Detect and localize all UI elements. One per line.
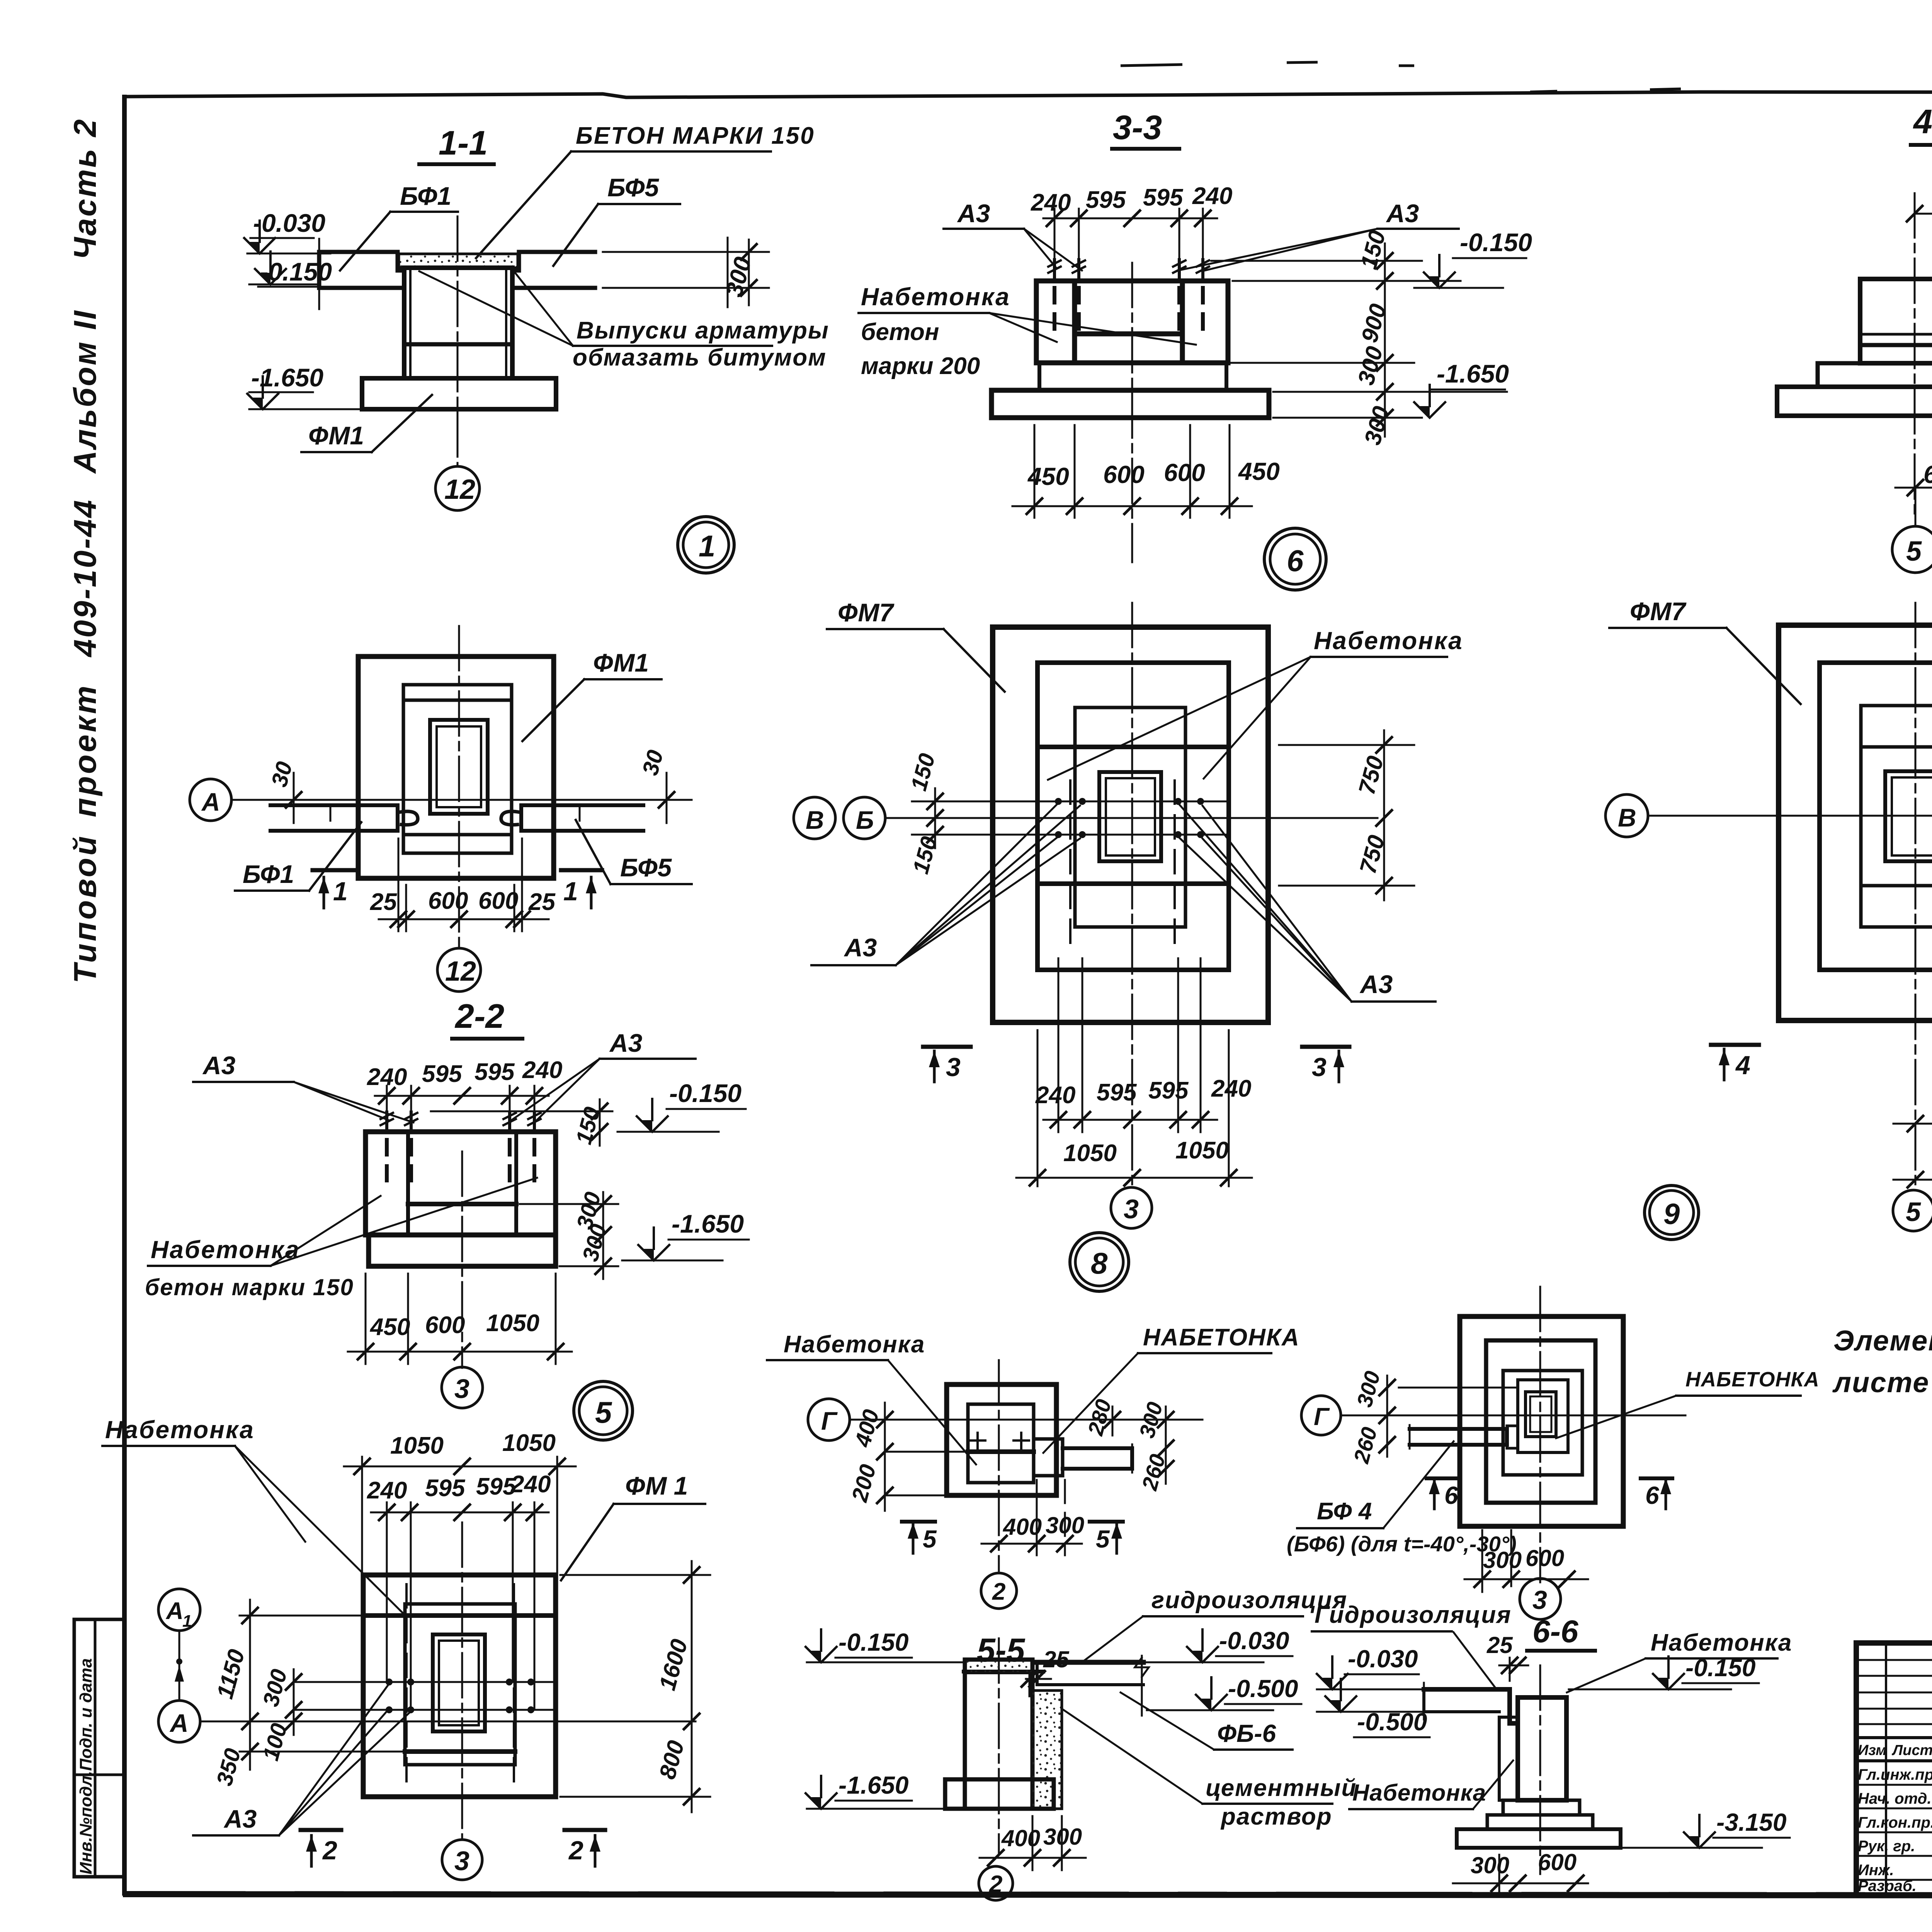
svg-text:-0.500: -0.500 <box>1228 1675 1298 1702</box>
svg-text:Типовой: Типовой <box>68 834 103 983</box>
svg-text:ФМ7: ФМ7 <box>838 598 895 627</box>
axis Г circle <box>808 1399 850 1440</box>
axis Г circle <box>1301 1396 1341 1435</box>
svg-text:А: А <box>201 787 220 816</box>
rebar stubs <box>1048 260 1061 280</box>
svg-text:1-1: 1-1 <box>439 124 488 162</box>
detail circle 6 <box>1264 528 1326 590</box>
svg-text:Выпуски арматуры: Выпуски арматуры <box>577 317 829 344</box>
upper pedestal with набетонка notch <box>1861 706 1932 747</box>
axis circle 2 <box>981 1573 1017 1609</box>
left dim 400 200 <box>885 1451 968 1453</box>
axis А circle <box>158 1701 200 1742</box>
svg-text:5: 5 <box>1096 1525 1110 1553</box>
axis В circle <box>794 797 835 839</box>
section mark 2 right <box>565 1828 605 1832</box>
svg-text:5: 5 <box>1906 536 1922 567</box>
centerline <box>461 1151 463 1368</box>
dim 150 right <box>599 1099 601 1146</box>
svg-text:6: 6 <box>1287 544 1304 578</box>
svg-text:Б: Б <box>856 806 874 834</box>
rebar dots <box>1055 798 1062 805</box>
svg-text:6: 6 <box>1645 1481 1659 1509</box>
concrete pad бетон марки 150 <box>399 254 518 268</box>
svg-text:595: 595 <box>1097 1079 1137 1106</box>
rebar dashed verticals <box>405 1584 408 1789</box>
svg-text:400: 400 <box>1001 1825 1040 1851</box>
svg-text:240: 240 <box>522 1057 562 1083</box>
rebar stubs <box>381 1112 393 1132</box>
middle step <box>405 1604 515 1765</box>
svg-text:Набетонка: Набетонка <box>105 1416 255 1444</box>
svg-text:-1.650: -1.650 <box>251 363 323 392</box>
axis А line <box>231 799 692 801</box>
centerline <box>461 1522 463 1839</box>
axis А1 circle <box>158 1589 200 1631</box>
svg-text:А3: А3 <box>1359 970 1393 998</box>
level -0.030 <box>244 221 275 253</box>
svg-text:1: 1 <box>182 1612 192 1631</box>
svg-text:600: 600 <box>428 888 468 914</box>
svg-text:240: 240 <box>510 1471 551 1498</box>
axis Б circle <box>844 797 885 839</box>
axis line <box>885 817 1378 819</box>
level -1.650 <box>247 376 278 409</box>
middle step <box>1820 663 1932 970</box>
svg-text:В: В <box>1618 803 1636 832</box>
svg-text:Рук. гр.: Рук. гр. <box>1858 1838 1915 1855</box>
footing <box>992 390 1269 418</box>
svg-text:1050: 1050 <box>390 1432 444 1459</box>
upper pedestal <box>1075 707 1185 747</box>
right dim chain 150 900 300 300 <box>1211 260 1422 262</box>
svg-text:450: 450 <box>1027 463 1069 490</box>
step 3 <box>1503 1371 1582 1475</box>
svg-text:5: 5 <box>595 1395 612 1429</box>
middle step <box>1037 663 1229 970</box>
svg-text:НАБЕТОНКА: НАБЕТОНКА <box>1685 1368 1820 1391</box>
outer outline <box>947 1384 1056 1495</box>
outer foundation outline <box>363 1575 556 1797</box>
svg-text:25: 25 <box>1043 1646 1070 1672</box>
svg-text:Гл.кон.пр.: Гл.кон.пр. <box>1858 1814 1932 1831</box>
svg-text:6-6: 6-6 <box>1532 1614 1579 1649</box>
detail circle 8 <box>1070 1233 1129 1291</box>
rebar offset lines 150 150 <box>912 801 1229 803</box>
svg-text:450: 450 <box>1238 457 1280 485</box>
wall with stipple top <box>965 1660 1032 1809</box>
anchor cross right <box>1020 1433 1022 1448</box>
БФ4 slab plan <box>1034 1439 1063 1476</box>
svg-text:Г: Г <box>821 1406 838 1435</box>
svg-text:марки 200: марки 200 <box>861 353 980 379</box>
section mark 6 right <box>1641 1476 1672 1480</box>
dim 300 right <box>318 239 320 309</box>
right dim 280 <box>1112 1406 1114 1435</box>
svg-text:409-10-44: 409-10-44 <box>68 498 103 658</box>
svg-text:1: 1 <box>333 877 348 906</box>
svg-text:25: 25 <box>528 889 556 915</box>
rebar dots <box>386 1679 393 1685</box>
svg-text:1050: 1050 <box>1063 1140 1117 1167</box>
svg-text:240: 240 <box>1031 189 1071 216</box>
floor slab БФ1 left <box>319 252 404 288</box>
step 2 <box>1486 1340 1595 1503</box>
svg-text:600: 600 <box>1538 1849 1577 1875</box>
frame top edge <box>124 92 1932 97</box>
svg-text:А: А <box>165 1598 184 1624</box>
cement pocket stippled <box>1032 1690 1062 1809</box>
title block outer border <box>1856 1643 1932 1895</box>
footing <box>369 1235 556 1266</box>
axis circle 3 <box>1520 1578 1561 1619</box>
svg-text:8: 8 <box>1091 1246 1108 1280</box>
svg-text:3: 3 <box>1124 1194 1139 1224</box>
svg-text:ФБ-6: ФБ-6 <box>1217 1719 1276 1747</box>
lower pedestal <box>1075 884 1185 927</box>
svg-text:600: 600 <box>478 888 518 914</box>
axis circle 5 bottom <box>1893 1190 1932 1231</box>
svg-text:595: 595 <box>1086 187 1126 213</box>
outer footing outline <box>993 627 1268 1022</box>
left dim 350 <box>240 1751 405 1753</box>
axis А1-А connector <box>179 1631 180 1699</box>
top fold dashes <box>1121 65 1182 66</box>
svg-text:Часть 2: Часть 2 <box>68 118 103 260</box>
svg-text:А3: А3 <box>202 1051 235 1080</box>
centerline <box>1914 193 1916 520</box>
svg-text:4: 4 <box>1735 1051 1750 1080</box>
outer foundation outline <box>358 656 554 878</box>
svg-text:1: 1 <box>699 529 715 563</box>
footing <box>1777 387 1932 416</box>
svg-text:Лист: Лист <box>1891 1742 1932 1759</box>
svg-text:Инв.№подл.: Инв.№подл. <box>77 1771 95 1874</box>
lower pedestal <box>1861 886 1932 927</box>
svg-text:12: 12 <box>445 956 476 987</box>
slab БФ5 plan right <box>521 805 643 831</box>
pedestal step <box>1039 363 1226 390</box>
rebar dashed in concrete <box>385 1140 389 1180</box>
inner outline <box>968 1404 1034 1483</box>
svg-text:обмазать битумом: обмазать битумом <box>573 344 827 371</box>
svg-text:-0.030: -0.030 <box>253 209 325 237</box>
svg-text:1050: 1050 <box>1175 1137 1229 1164</box>
axis circle 12 below <box>437 948 481 992</box>
svg-text:В: В <box>806 806 824 834</box>
svg-text:-3.150: -3.150 <box>1716 1808 1786 1836</box>
axis circle 5 <box>1892 526 1932 573</box>
column pocket <box>433 1634 485 1731</box>
middle step <box>403 685 512 853</box>
svg-text:3: 3 <box>454 1374 469 1404</box>
left dim 1150 <box>240 1615 363 1617</box>
svg-text:ФМ1: ФМ1 <box>593 648 649 677</box>
svg-text:600: 600 <box>1103 461 1145 488</box>
floor slab <box>1424 1689 1518 1723</box>
centerline <box>998 1360 1000 1571</box>
svg-text:6: 6 <box>1444 1481 1458 1509</box>
svg-text:2: 2 <box>992 1578 1005 1605</box>
svg-text:25: 25 <box>370 889 397 915</box>
rebar dashed in concrete <box>1053 288 1056 332</box>
svg-text:595: 595 <box>425 1475 466 1502</box>
svg-text:Разраб.: Разраб. <box>1858 1878 1917 1895</box>
svg-text:450: 450 <box>369 1314 410 1340</box>
footing <box>945 1779 1054 1809</box>
footing ФМ1 <box>362 378 556 409</box>
axis line <box>850 1419 1202 1421</box>
column ФМ1 <box>404 268 512 378</box>
frame bottom edge <box>123 1894 1932 1896</box>
svg-text:9: 9 <box>1663 1198 1680 1231</box>
svg-text:А3: А3 <box>957 199 990 228</box>
section mark 3 right <box>1302 1045 1349 1049</box>
svg-text:595: 595 <box>422 1061 463 1087</box>
svg-text:600: 600 <box>1164 459 1205 486</box>
right dim 1600 800 <box>560 1574 710 1576</box>
section mark 1 right <box>561 868 602 872</box>
bottom dim 240 595 595 240 <box>1037 1030 1039 1186</box>
section mark 2 left <box>301 1828 341 1832</box>
slab hook left <box>399 811 418 825</box>
svg-text:1050: 1050 <box>502 1430 556 1456</box>
svg-text:цементный: цементный <box>1206 1775 1357 1801</box>
svg-text:2: 2 <box>322 1836 337 1865</box>
svg-text:Изм: Изм <box>1858 1742 1886 1759</box>
back layer <box>1499 1717 1518 1800</box>
axis circle 2 <box>979 1866 1013 1900</box>
svg-text:бетон марки 150: бетон марки 150 <box>145 1274 354 1300</box>
header row lines <box>1856 1736 1932 1739</box>
slab БФ1 plan left <box>270 805 398 831</box>
centerline <box>1539 1665 1541 1874</box>
svg-text:595: 595 <box>1143 184 1184 211</box>
svg-text:1050: 1050 <box>486 1310 539 1337</box>
outer outline <box>1460 1316 1623 1526</box>
axis А line <box>200 1721 696 1723</box>
axis line <box>1648 815 1932 817</box>
svg-text:проект: проект <box>68 684 103 817</box>
svg-text:-0.150: -0.150 <box>669 1079 742 1107</box>
svg-text:Гидроизоляция: Гидроизоляция <box>1315 1602 1512 1628</box>
column pocket <box>1885 771 1932 861</box>
foundation body outline <box>1036 281 1228 363</box>
inner pedestal verticals <box>1073 747 1077 884</box>
svg-text:-0.150: -0.150 <box>838 1628 908 1656</box>
svg-text:бетон: бетон <box>861 319 939 345</box>
bottom dim 450 600 600 450 <box>1034 425 1036 518</box>
svg-text:Набетонка: Набетонка <box>784 1331 925 1358</box>
svg-text:-0.150: -0.150 <box>1685 1654 1755 1682</box>
svg-text:-0.030: -0.030 <box>1219 1627 1289 1655</box>
набетонка ring <box>1518 1380 1568 1452</box>
svg-text:ФМ7: ФМ7 <box>1630 597 1687 626</box>
svg-text:Инж.: Инж. <box>1858 1862 1894 1879</box>
svg-text:-1.650: -1.650 <box>1437 359 1509 388</box>
svg-text:3-3: 3-3 <box>1113 108 1162 146</box>
section mark 5 right <box>1090 1520 1123 1524</box>
centerline <box>1539 1287 1541 1582</box>
svg-text:Набетонка: Набетонка <box>861 283 1010 311</box>
axis circle А <box>190 779 231 821</box>
svg-text:БФ5: БФ5 <box>607 173 660 202</box>
floor slab <box>1037 1660 1143 1665</box>
svg-text:240: 240 <box>1192 183 1232 209</box>
column pocket <box>1099 772 1161 861</box>
column pocket <box>1526 1392 1556 1437</box>
centerline axis 12 <box>457 216 459 467</box>
pedestal step <box>1818 363 1932 387</box>
svg-text:25: 25 <box>1486 1632 1513 1658</box>
svg-text:595: 595 <box>474 1059 515 1085</box>
svg-text:Набетонка: Набетонка <box>1651 1629 1792 1656</box>
svg-text:Набетонка: Набетонка <box>1314 627 1463 655</box>
axis circle 3 bottom <box>1111 1187 1152 1228</box>
axis circle 12 <box>435 466 480 510</box>
svg-text:240: 240 <box>1211 1075 1251 1102</box>
svg-text:3: 3 <box>454 1846 469 1876</box>
left dim 300 260 <box>1386 1376 1388 1457</box>
svg-text:Г: Г <box>1314 1403 1330 1430</box>
svg-text:А3: А3 <box>609 1029 642 1057</box>
signature row lines <box>1856 1784 1932 1786</box>
section mark 3 left <box>923 1045 971 1049</box>
svg-text:БФ 4: БФ 4 <box>1317 1498 1372 1525</box>
svg-text:А3: А3 <box>1386 199 1419 228</box>
section mark 5 left <box>902 1520 935 1524</box>
svg-text:12: 12 <box>444 474 475 505</box>
svg-text:3: 3 <box>946 1053 961 1082</box>
svg-text:Подп. и дата: Подп. и дата <box>77 1658 95 1771</box>
left dim 300 100 <box>293 1669 295 1735</box>
svg-text:600: 600 <box>1526 1545 1564 1571</box>
section mark 6 left <box>1427 1476 1457 1480</box>
centerline vertical <box>458 626 460 947</box>
bottom dim 450 600 1050 <box>365 1274 367 1364</box>
svg-text:1: 1 <box>563 877 578 906</box>
svg-text:5: 5 <box>1906 1197 1921 1227</box>
svg-text:-0.150: -0.150 <box>1460 228 1532 257</box>
column pocket <box>430 720 488 814</box>
svg-text:ФМ1: ФМ1 <box>308 421 364 450</box>
svg-text:НАБЕТОНКА: НАБЕТОНКА <box>1143 1324 1300 1351</box>
rebar dashed verticals <box>1069 781 1071 951</box>
svg-text:2: 2 <box>989 1871 1002 1898</box>
step 1 <box>1503 1800 1580 1815</box>
detail circle 1 <box>678 517 734 573</box>
svg-text:листе: листе <box>1832 1366 1929 1398</box>
upper step thick line <box>363 1613 556 1618</box>
step 2 <box>1487 1815 1593 1829</box>
detail circle 5 <box>574 1381 633 1440</box>
footing <box>1457 1829 1621 1848</box>
left table verticals <box>1885 1643 1887 1895</box>
svg-text:5: 5 <box>923 1525 937 1553</box>
label Гидроизоляция (6-6) <box>1311 1602 1512 1688</box>
svg-text:595: 595 <box>1148 1077 1189 1104</box>
outer footing outline <box>1779 625 1932 1020</box>
centerline <box>998 1638 1000 1855</box>
svg-text:БФ1: БФ1 <box>243 860 294 888</box>
svg-text:4-4: 4-4 <box>1913 102 1932 141</box>
left margin stamp column <box>68 118 124 1877</box>
svg-text:Гл.инж.пр.: Гл.инж.пр. <box>1858 1766 1932 1783</box>
svg-text:ФМ 1: ФМ 1 <box>625 1471 688 1500</box>
detail circle 9 <box>1645 1185 1699 1240</box>
body: left column block <box>1860 279 1932 363</box>
svg-text:Набетонка: Набетонка <box>151 1236 300 1264</box>
svg-text:-1.650: -1.650 <box>672 1209 744 1238</box>
svg-text:3: 3 <box>1312 1053 1327 1082</box>
axis В circle <box>1605 794 1648 837</box>
svg-text:Альбом II: Альбом II <box>68 309 103 474</box>
svg-text:240: 240 <box>367 1477 407 1504</box>
svg-text:240: 240 <box>1035 1082 1075 1109</box>
axis line <box>1341 1415 1685 1417</box>
rebar lines horizontal <box>294 1681 556 1683</box>
svg-text:А3: А3 <box>223 1804 257 1833</box>
svg-text:Нач. отд.: Нач. отд. <box>1858 1790 1931 1807</box>
note text <box>1832 1315 1932 1398</box>
inv table box <box>74 1619 124 1877</box>
dim 30 right <box>666 773 668 823</box>
dim 25 600 600 25 <box>398 838 400 931</box>
svg-text:раствор: раствор <box>1220 1803 1332 1830</box>
right dim 300 260 <box>1165 1406 1167 1484</box>
inner bottom thick line <box>968 1449 1034 1454</box>
svg-text:2-2: 2-2 <box>454 997 504 1035</box>
svg-text:А3: А3 <box>844 933 877 962</box>
anchor cross left <box>976 1433 979 1448</box>
svg-text:300: 300 <box>1483 1547 1522 1573</box>
svg-text:2: 2 <box>568 1836 583 1865</box>
dim 300 300 right <box>602 1192 604 1279</box>
svg-text:-1.650: -1.650 <box>838 1771 908 1799</box>
svg-text:БФ1: БФ1 <box>400 182 451 210</box>
svg-text:Элементы: Элементы <box>1833 1325 1932 1357</box>
svg-text:3: 3 <box>1532 1585 1547 1615</box>
right dim 750 750 <box>1279 744 1414 746</box>
svg-text:600: 600 <box>425 1312 465 1338</box>
svg-text:БФ5: БФ5 <box>620 853 672 882</box>
frame left edge <box>122 95 127 1896</box>
axis circle 3 bottom <box>442 1840 482 1880</box>
centerline <box>1131 263 1133 562</box>
dim 30 left <box>293 773 295 823</box>
БФ4 slab plan <box>1410 1429 1507 1445</box>
svg-text:Набетонка: Набетонка <box>1352 1780 1486 1806</box>
svg-text:БЕТОН МАРКИ 150: БЕТОН МАРКИ 150 <box>576 122 815 149</box>
level -0.150 <box>431 1111 612 1112</box>
svg-text:-0.150: -0.150 <box>260 257 332 286</box>
body outline <box>366 1132 556 1235</box>
slab hook right <box>501 811 520 825</box>
floor slab БФ5 right <box>512 252 595 288</box>
centerline vertical <box>1131 603 1133 1188</box>
svg-text:300: 300 <box>1471 1852 1509 1878</box>
svg-text:-0.030: -0.030 <box>1348 1645 1418 1673</box>
centerline vertical <box>1915 603 1917 1190</box>
level -0.150 <box>255 252 286 284</box>
column набетонка <box>1518 1697 1566 1800</box>
svg-text:А: А <box>169 1709 189 1737</box>
upper row lines <box>1856 1659 1932 1661</box>
section mark 4 left <box>1711 1043 1759 1047</box>
svg-text:600: 600 <box>1923 461 1932 488</box>
section mark 1 left <box>313 868 354 872</box>
axis circle 3 <box>442 1367 483 1408</box>
